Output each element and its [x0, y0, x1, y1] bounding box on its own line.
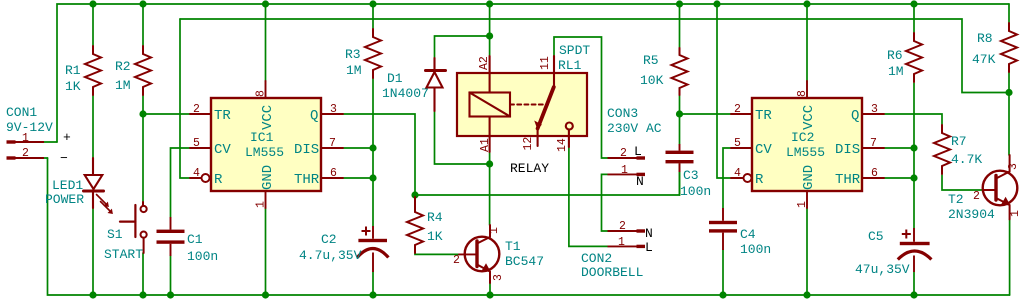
- C3 leads: [679, 144, 681, 172]
- IC1 pin stubs: [190, 81, 343, 208]
- op-amp ICs and boxes: [211, 73, 862, 191]
- svg-text:LED1: LED1: [52, 178, 83, 193]
- svg-text:LM555: LM555: [786, 145, 825, 160]
- svg-text:R: R: [755, 172, 764, 188]
- svg-text:1: 1: [621, 164, 628, 177]
- wire D1 top to A2 node: [435, 4, 490, 58]
- svg-text:1: 1: [22, 132, 29, 145]
- svg-text:T2: T2: [948, 192, 964, 207]
- svg-text:6: 6: [330, 167, 337, 180]
- svg-text:DIS: DIS: [294, 142, 319, 158]
- junction Q1/R4 node: [411, 191, 418, 198]
- wire IC1 reset drop: [180, 19, 190, 178]
- svg-text:1M: 1M: [115, 78, 131, 93]
- resistor R3: [365, 29, 381, 78]
- T1 emitter: [477, 265, 490, 284]
- svg-text:2: 2: [620, 147, 627, 160]
- junction gnd C4: [719, 291, 726, 298]
- svg-text:A2: A2: [478, 56, 491, 70]
- svg-text:4: 4: [193, 167, 200, 180]
- wire IC2 reset from top rail: [717, 4, 731, 178]
- svg-text:C4: C4: [740, 227, 756, 242]
- svg-text:GND: GND: [801, 165, 817, 190]
- svg-text:R8: R8: [977, 31, 993, 46]
- svg-text:CON3: CON3: [607, 106, 638, 121]
- wire CON1 pin1 bend: [44, 141, 57, 143]
- junction TR1 node: [139, 110, 146, 117]
- op-amp U2 body: IC2 LM555 box: [752, 98, 862, 191]
- C5 plus sign: [902, 230, 911, 239]
- resistor R7: [934, 125, 950, 174]
- wire R5 branch: [679, 4, 681, 144]
- svg-text:DOORBELL: DOORBELL: [581, 265, 643, 280]
- T2 emitter: [996, 198, 1010, 219]
- svg-text:3: 3: [492, 274, 505, 281]
- svg-text:2: 2: [734, 103, 741, 116]
- svg-text:R: R: [214, 172, 223, 188]
- svg-text:3: 3: [330, 103, 337, 116]
- wire DIS1: [343, 147, 373, 149]
- junction gnd LED: [89, 291, 96, 298]
- svg-text:12: 12: [522, 137, 535, 151]
- connector CON3 pins: [608, 156, 646, 176]
- connector CON1 pins: [7, 140, 45, 159]
- svg-text:100n: 100n: [740, 242, 771, 257]
- svg-text:R3: R3: [345, 47, 361, 62]
- relay pin 12 stub: [537, 127, 539, 146]
- T2 base lead: [983, 189, 995, 191]
- wire T1 emitter to ground: [489, 283, 491, 295]
- junction R8/T2 collector node: [1005, 89, 1012, 96]
- wire R7 to T2 base: [942, 175, 983, 190]
- junction gnd IC2: [803, 291, 810, 298]
- svg-text:6: 6: [871, 167, 878, 180]
- transistor Q2: T2 2N3904: [983, 155, 1018, 219]
- svg-text:4.7u,35V: 4.7u,35V: [299, 248, 362, 263]
- junction R6 top: [910, 0, 917, 7]
- svg-text:L: L: [634, 144, 642, 159]
- svg-text:RL1: RL1: [558, 58, 582, 73]
- junction IC2 reset rail: [713, 0, 720, 7]
- junction gnd T1: [486, 291, 493, 298]
- junction gnd S1: [139, 291, 146, 298]
- svg-text:TR: TR: [214, 108, 231, 124]
- svg-text:4.7K: 4.7K: [951, 152, 982, 167]
- relay dashed actuator line: [510, 104, 548, 106]
- svg-text:7: 7: [870, 137, 877, 150]
- connector CON2 pins: [608, 229, 646, 248]
- svg-text:R1: R1: [65, 63, 81, 78]
- svg-text:A1: A1: [479, 138, 492, 152]
- svg-text:IC1: IC1: [250, 130, 274, 145]
- svg-text:CV: CV: [755, 142, 772, 158]
- wire THR2: [884, 177, 914, 179]
- S1 bottom contact: [141, 232, 147, 238]
- junction R1 top: [89, 0, 96, 7]
- svg-text:C2: C2: [321, 232, 337, 247]
- T2 collector: [996, 155, 1010, 179]
- resistor R6: [906, 33, 922, 82]
- resistor R2: [135, 46, 151, 95]
- svg-text:CV: CV: [214, 142, 231, 158]
- svg-text:9V-12V: 9V-12V: [6, 120, 53, 135]
- transistor Q1: T1 BC547: [459, 225, 499, 283]
- wire relay pin11 to CON3 L: [554, 37, 608, 158]
- svg-text:8: 8: [796, 90, 809, 97]
- S1 plunger: [120, 221, 135, 223]
- svg-text:1M: 1M: [346, 63, 362, 78]
- D1 cathode bar: [426, 69, 446, 72]
- relay pin 14 lead and contact circle: [568, 130, 570, 147]
- relay switch arm: [538, 87, 554, 129]
- svg-text:R7: R7: [951, 134, 967, 149]
- svg-text:IC2: IC2: [791, 130, 814, 145]
- capacitor C4: [709, 221, 737, 233]
- relay internals: [470, 56, 573, 152]
- svg-text:5: 5: [193, 137, 200, 150]
- svg-text:TR: TR: [755, 108, 772, 124]
- wire IC1 GND: [265, 208, 267, 295]
- svg-text:2: 2: [22, 147, 29, 160]
- junction A2 rail: [486, 0, 493, 7]
- wire A2 stub top: [489, 36, 491, 56]
- T2 base bar: [994, 176, 997, 201]
- svg-text:L: L: [645, 240, 653, 255]
- svg-text:C1: C1: [187, 232, 203, 247]
- wire R8 top: [1008, 4, 1010, 23]
- svg-text:R2: R2: [115, 59, 131, 74]
- wire D1 anode to A1 node: [435, 111, 490, 164]
- wire THR1: [343, 177, 373, 179]
- svg-text:VCC: VCC: [260, 105, 276, 130]
- svg-text:C3: C3: [683, 168, 699, 183]
- LED cathode lead: [92, 193, 94, 209]
- svg-text:1K: 1K: [427, 229, 443, 244]
- svg-text:14: 14: [556, 138, 569, 152]
- svg-text:100n: 100n: [187, 249, 218, 264]
- wire R3/C2 branch: [372, 4, 374, 295]
- wire ground rail: [48, 158, 1010, 295]
- svg-text:R6: R6: [887, 48, 903, 63]
- svg-text:DIS: DIS: [835, 142, 860, 158]
- resistor R5: [672, 48, 688, 95]
- svg-text:T1: T1: [505, 239, 521, 254]
- junction DIS2 node: [910, 144, 917, 151]
- wire Q1 to R4 and C3: [343, 114, 680, 195]
- C1 leads: [170, 217, 172, 256]
- T1 base lead: [459, 253, 476, 255]
- junction R2 top: [139, 0, 146, 7]
- svg-text:RELAY: RELAY: [510, 161, 549, 176]
- junction THR2 node: [910, 174, 917, 181]
- S1 bottom lead: [143, 238, 145, 253]
- op-amp U1 body: IC1 LM555 box: [211, 98, 321, 191]
- switch S1: [120, 202, 147, 253]
- svg-text:5: 5: [734, 137, 741, 150]
- wire R6/C5 branch: [913, 4, 915, 295]
- svg-text:3: 3: [871, 103, 878, 116]
- svg-text:N: N: [636, 174, 644, 189]
- junction gnd C2: [369, 291, 376, 298]
- junction gnd IC1: [262, 291, 269, 298]
- diode D1: [426, 58, 446, 111]
- svg-text:R5: R5: [643, 53, 659, 68]
- svg-text:230V AC: 230V AC: [607, 121, 662, 136]
- wire CV1 to C1: [171, 148, 191, 295]
- wire T2 emitter to ground: [1009, 219, 1011, 295]
- svg-text:THR: THR: [294, 172, 320, 188]
- svg-text:SPDT: SPDT: [559, 43, 590, 58]
- wire CV2 to C4: [723, 148, 731, 295]
- T1 collector: [477, 225, 490, 244]
- svg-text:CON1: CON1: [6, 105, 37, 120]
- wire IC1 VCC: [265, 4, 267, 81]
- junction gnd C5: [910, 291, 917, 298]
- svg-text:POWER: POWER: [45, 192, 84, 207]
- svg-text:1K: 1K: [65, 79, 81, 94]
- LED cathode bar: [84, 190, 104, 193]
- LED arrow 2: [101, 202, 110, 211]
- svg-text:R4: R4: [427, 210, 443, 225]
- LED1 symbol: [84, 158, 113, 214]
- capacitor C3: [666, 151, 694, 164]
- wire R4 to T1 base: [415, 253, 459, 254]
- svg-text:47u,35V: 47u,35V: [855, 262, 910, 277]
- svg-text:1: 1: [618, 236, 625, 249]
- capacitor C2 polarized: [357, 226, 388, 272]
- svg-text:1: 1: [488, 227, 501, 234]
- wire DIS2: [884, 147, 914, 149]
- resistor R1: [85, 46, 101, 95]
- relay coil rectangle: [470, 93, 511, 117]
- svg-text:11: 11: [539, 56, 552, 70]
- S1 top lead: [142, 202, 144, 206]
- wire CON3 N to CON2 N: [602, 174, 608, 231]
- svg-text:1N4007: 1N4007: [382, 86, 429, 101]
- svg-text:+: +: [63, 130, 71, 145]
- D1 anode lead: [433, 88, 435, 112]
- svg-text:10K: 10K: [640, 73, 664, 88]
- svg-text:2: 2: [973, 190, 980, 203]
- svg-text:2: 2: [193, 103, 200, 116]
- svg-text:1: 1: [1009, 210, 1022, 217]
- svg-text:N: N: [645, 226, 653, 241]
- wire inner reset rail: [180, 19, 1009, 93]
- svg-text:GND: GND: [260, 165, 276, 190]
- wire R2/S1 branch: [142, 4, 144, 295]
- S1 actuator bar: [134, 205, 136, 237]
- svg-text:8: 8: [255, 90, 268, 97]
- wire R8 bottom to node: [1008, 71, 1010, 155]
- wire IC2 GND: [806, 208, 808, 295]
- T2 emitter arrow: [1002, 198, 1010, 205]
- svg-text:D1: D1: [387, 71, 403, 86]
- wire R1 branch: [92, 4, 94, 295]
- relay pin 11 contact lead: [553, 56, 555, 87]
- svg-text:2N3904: 2N3904: [948, 207, 995, 222]
- wire TR2: [680, 113, 732, 115]
- svg-text:VCC: VCC: [801, 105, 817, 130]
- IC2 reset bubble: [744, 174, 752, 182]
- IC2 pin stubs: [731, 81, 884, 208]
- svg-text:S1: S1: [107, 227, 123, 242]
- svg-text:1M: 1M: [888, 64, 904, 79]
- svg-text:3: 3: [1007, 163, 1020, 170]
- svg-text:4: 4: [734, 167, 741, 180]
- T1 base bar: [475, 241, 478, 267]
- relay coil leads A2/A1: [489, 56, 491, 152]
- T1 emitter arrow: [483, 264, 491, 271]
- LED triangle: [85, 175, 103, 189]
- wire TR1: [143, 113, 190, 115]
- svg-text:CON2: CON2: [581, 251, 612, 266]
- wire Q2 to R7: [884, 114, 942, 125]
- wire CON1 pin2 bend: [44, 157, 48, 159]
- svg-text:START: START: [104, 247, 143, 262]
- junction IC2 VCC: [803, 0, 810, 7]
- D1 cathode lead: [433, 58, 435, 69]
- wire top VCC rail: [57, 4, 1009, 142]
- svg-text:1: 1: [255, 201, 268, 208]
- wire C3 bottom: [679, 164, 681, 195]
- junction gnd C1: [167, 291, 174, 298]
- D1 triangle: [427, 72, 443, 88]
- junction IC1 VCC: [262, 0, 269, 7]
- svg-text:1: 1: [796, 201, 809, 208]
- LED anode lead: [92, 158, 94, 175]
- wire relay pin14 to CON2 L: [569, 147, 608, 246]
- junction DIS1 node: [369, 144, 376, 151]
- resistor R8: [1001, 23, 1017, 72]
- svg-text:100n: 100n: [680, 184, 711, 199]
- LED arrow 1: [97, 195, 106, 204]
- junction R3 top: [369, 0, 376, 7]
- wire A1 to T1 collector: [489, 152, 491, 225]
- svg-text:47K: 47K: [972, 52, 996, 67]
- relay arm tip: [535, 122, 541, 129]
- C2 plus sign: [362, 227, 371, 236]
- junction THR1 node: [369, 174, 376, 181]
- svg-text:−: −: [60, 151, 68, 166]
- junction TR2 node: [676, 110, 683, 117]
- junction A1 node: [486, 160, 493, 167]
- capacitor C5 polarized: [898, 228, 932, 272]
- svg-text:THR: THR: [835, 172, 861, 188]
- junction D1 cathode node: [486, 32, 493, 39]
- svg-text:LM555: LM555: [245, 145, 284, 160]
- C4 leads: [722, 208, 724, 250]
- svg-text:Q: Q: [310, 108, 318, 124]
- svg-text:C5: C5: [868, 229, 884, 244]
- svg-text:2: 2: [619, 220, 626, 233]
- relay coil diagonal: [470, 93, 511, 117]
- IC1 reset bubble: [202, 174, 210, 182]
- junction R5 top: [676, 0, 683, 7]
- svg-text:Q: Q: [851, 108, 859, 124]
- relay RL1 body: [457, 73, 587, 136]
- wire IC2 VCC: [806, 4, 808, 81]
- svg-text:BC547: BC547: [505, 254, 544, 269]
- S1 top contact: [141, 206, 147, 212]
- svg-text:2: 2: [453, 254, 460, 267]
- svg-text:7: 7: [329, 137, 336, 150]
- capacitor C1: [157, 230, 185, 244]
- resistor R4: [407, 197, 423, 253]
